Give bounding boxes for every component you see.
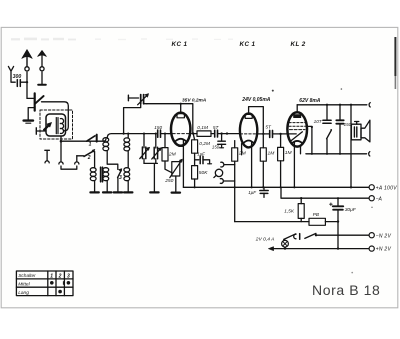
svg-text:−A: −A [376, 196, 383, 202]
node junction [280, 186, 282, 188]
resistor 0,1M [193, 133, 197, 135]
antenna arrow 2 [41, 56, 43, 67]
node junction [337, 220, 339, 222]
capacitor 30uF electrolytic [337, 198, 339, 248]
tube V3 bottom right lead [300, 146, 302, 153]
transformer T1 core [100, 167, 102, 182]
antenna switch contact lower [34, 106, 36, 111]
dust speck [272, 90, 274, 92]
node junction [164, 133, 166, 135]
chassis stub symbol [45, 150, 50, 160]
capacitor 150 output [339, 105, 341, 120]
coil L3 oscillator [127, 134, 129, 138]
node junction [123, 133, 125, 135]
ground [90, 191, 98, 193]
resistor PB [309, 218, 325, 225]
resistor 1M grid leak V3 [280, 134, 282, 148]
svg-text:300: 300 [13, 74, 22, 80]
core lines [55, 118, 57, 134]
svg-text:62V 8mA: 62V 8mA [299, 98, 321, 104]
capacitor 1uF decoupling [263, 187, 265, 190]
transformer T1 secondary winding [103, 168, 109, 172]
ground [103, 191, 111, 193]
scan smudge top [11, 38, 76, 41]
table dot Mittel 3 [67, 281, 71, 285]
node junction [279, 133, 281, 135]
pickup jack circle [215, 169, 222, 176]
switch 3 [118, 170, 122, 178]
speaker terminal hook top [369, 103, 370, 107]
svg-text:KL 2: KL 2 [291, 41, 306, 48]
node junction [284, 247, 286, 249]
node junction [60, 140, 63, 143]
resistor 0,2M [193, 134, 194, 140]
capacitor 1uF [195, 159, 199, 161]
transformer T1 primary winding [90, 168, 96, 172]
node junction [326, 104, 328, 106]
tube V3 cathode lead wire [293, 142, 295, 187]
speaker terminal hook bottom [369, 152, 370, 156]
node junction [220, 132, 222, 134]
node junction [339, 153, 341, 155]
tube V3 anode lead [296, 105, 298, 112]
loudspeaker LS [361, 120, 370, 142]
node junction [337, 197, 339, 199]
node junction [326, 153, 328, 155]
wire hooks jumper [60, 141, 62, 162]
antenna switch contact upper [27, 97, 34, 99]
svg-text:0,2M: 0,2M [199, 141, 210, 147]
+A rail wire [183, 186, 369, 188]
node junction [300, 197, 302, 199]
svg-text:10T: 10T [314, 119, 323, 124]
table dot Lang 2 [58, 290, 62, 294]
tube V1 grid line [168, 133, 193, 135]
svg-text:2: 2 [58, 273, 62, 279]
resistor 1M anode load [260, 148, 266, 161]
svg-text:1μF: 1μF [197, 151, 205, 156]
tone switch [327, 130, 332, 138]
variable capacitor CV1 [143, 134, 145, 148]
svg-text:150: 150 [154, 125, 162, 130]
svg-text:Lang: Lang [18, 290, 29, 296]
resistor 2M V2 [234, 141, 236, 148]
grid wire node A [107, 134, 156, 139]
-N wire [316, 234, 369, 236]
resistor 2M grid leak V1 [164, 134, 166, 148]
tube V1 KC1 envelope [171, 113, 190, 146]
resistor 1,5K [300, 198, 302, 203]
tube V2 anode bracket 24V [249, 107, 264, 148]
speaker feed wire [350, 105, 352, 188]
node junction [315, 234, 317, 236]
tube V2 grid line [240, 133, 257, 135]
tube V1 cathode lead wire [182, 140, 184, 187]
pilot lamp 2V 0,4A [284, 239, 285, 240]
svg-text:Schalter: Schalter [18, 273, 36, 279]
node junction [26, 81, 28, 83]
node junction [339, 104, 341, 106]
wire antenna cap to junction [20, 81, 27, 83]
node junction [127, 133, 129, 135]
resistor 50K [192, 166, 198, 179]
switch 1 [87, 136, 95, 141]
svg-text:1: 1 [50, 273, 53, 279]
wire to switch 1 [61, 139, 106, 141]
table tick mark [62, 282, 64, 285]
svg-text:150: 150 [212, 145, 220, 150]
svg-text:1μF: 1μF [248, 190, 256, 195]
node junction [311, 126, 313, 128]
tube V2 cathode [244, 141, 254, 143]
capacitor C 300 [16, 80, 18, 87]
capacitor 5T coupling [214, 130, 216, 137]
tube V1 top cap [177, 114, 184, 118]
coil L2 antenna secondary [103, 138, 109, 142]
ground [124, 191, 132, 193]
svg-text:1M: 1M [285, 150, 293, 156]
tube V1 anode lead [180, 104, 182, 113]
band table [16, 271, 73, 296]
capacitor 150 grid shunt [221, 134, 223, 141]
output bottom rail [306, 153, 367, 155]
node junction [143, 133, 145, 135]
node junction [311, 153, 313, 155]
node junction [350, 186, 352, 188]
terminal -A [369, 196, 374, 201]
capacitor 10T [326, 105, 328, 120]
svg-text:3: 3 [67, 273, 70, 279]
svg-text:+N 2V: +N 2V [376, 247, 392, 253]
tube V2 heater lead [241, 144, 243, 155]
tube V3 screen wire [307, 126, 312, 153]
terminal +A 100V [369, 185, 374, 190]
tube V3 grids [289, 122, 305, 124]
tube V1 cathode [175, 139, 186, 142]
ground [150, 191, 158, 193]
capacitor 5T coupling 2 [269, 130, 271, 137]
svg-text:−N 2V: −N 2V [376, 233, 392, 239]
wire to tube 1 grid [161, 133, 172, 135]
ground [114, 191, 122, 193]
antenna arrow 1 [26, 57, 28, 67]
svg-text:250: 250 [164, 178, 173, 184]
capacitor 150 shunt bottom tick [220, 147, 224, 149]
trimmer capacitor feedback [127, 95, 129, 101]
svg-text:1,5K: 1,5K [284, 208, 295, 213]
node junction [262, 186, 264, 188]
switch 2 [77, 155, 84, 157]
node junction [350, 104, 352, 106]
tuning arrow [44, 124, 50, 130]
node junction [194, 186, 196, 188]
svg-text:3: 3 [119, 175, 122, 181]
wire to tube V3 grid [273, 133, 297, 135]
ferrite antenna dashed box [40, 110, 73, 139]
svg-text:KC 1: KC 1 [240, 41, 256, 48]
svg-text:KC 1: KC 1 [172, 41, 188, 48]
wire to tube V2 grid [218, 133, 241, 135]
tube V3 cathode [292, 141, 302, 143]
svg-text:35V 0,2mA: 35V 0,2mA [182, 98, 207, 104]
svg-text:0,1M: 0,1M [197, 125, 208, 131]
coil loops L1 [60, 119, 63, 134]
node junction [180, 103, 182, 105]
left lead with bar [36, 130, 46, 132]
tube V2 cathode lead wire [251, 142, 253, 188]
svg-text:2M: 2M [168, 151, 177, 157]
dust speck [351, 272, 353, 274]
svg-text:PB: PB [313, 212, 319, 217]
wire tuning caps to ground [144, 163, 157, 191]
ground [172, 192, 180, 194]
svg-text:2V 0,4 A: 2V 0,4 A [255, 236, 275, 242]
node junction [251, 186, 253, 188]
ground [24, 119, 33, 121]
variable capacitor CV2 [155, 134, 157, 148]
node junction [192, 132, 194, 134]
svg-text:2M: 2M [238, 150, 247, 156]
node junction [337, 247, 339, 249]
svg-text:1: 1 [89, 141, 92, 147]
dark scan line right edge [394, 37, 396, 76]
node junction [155, 133, 157, 135]
coil form box L1 [46, 114, 66, 136]
table dot Mittel 1 [50, 281, 54, 285]
terminal -N 2V [369, 233, 374, 238]
svg-text:30μF: 30μF [345, 207, 357, 213]
svg-text:24V 0,05mA: 24V 0,05mA [241, 97, 270, 103]
antenna Y symbol [8, 66, 15, 82]
node junction [234, 186, 236, 188]
svg-text:Nora B 18: Nora B 18 [312, 282, 380, 298]
output transformer [355, 122, 359, 125]
anode supply wire 35V [147, 104, 193, 134]
terminal +N 2V [369, 246, 374, 251]
svg-text:1M: 1M [268, 150, 276, 156]
dust speck [341, 88, 343, 90]
tube V3 top cap [294, 115, 301, 118]
svg-text:50K: 50K [199, 170, 208, 176]
svg-text:Mittel: Mittel [18, 282, 30, 288]
wire anode to coupling cap [257, 133, 269, 135]
pickup jack hook [220, 179, 223, 184]
svg-text:+A 100V: +A 100V [376, 185, 398, 191]
anode supply rail 62V [297, 104, 367, 106]
wire heater drop [234, 161, 236, 221]
+N wire with arrow [273, 248, 369, 250]
potentiometer 250 [172, 162, 180, 176]
tube V3 KL2 envelope [287, 112, 307, 146]
svg-text:150: 150 [344, 122, 352, 127]
-A rail wire [281, 187, 369, 198]
node junction [226, 132, 228, 134]
wire box bottom to junction [60, 136, 62, 141]
mains switch S1 [284, 234, 296, 240]
tube V2 KC1 envelope [240, 113, 257, 147]
wire switch to coil box [42, 102, 69, 131]
svg-text:2: 2 [87, 155, 91, 161]
node junction [262, 133, 264, 135]
heater rail with PB resistor [235, 221, 309, 223]
tube V2 top cap [245, 114, 252, 118]
pickup jack hook [221, 162, 224, 167]
node junction [293, 186, 295, 188]
capacitor 150 series [157, 130, 159, 137]
